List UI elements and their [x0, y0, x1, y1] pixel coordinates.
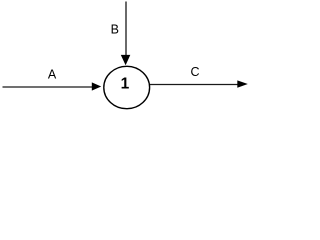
arrowhead of arrow A — [92, 82, 101, 90]
arrowhead of arrow C — [237, 80, 248, 87]
wire: arrow C shaft (right horizontal line) — [150, 84, 238, 86]
wire: arrow A shaft (left horizontal line) — [3, 86, 93, 88]
svg-text:A: A — [48, 68, 57, 82]
wire: arrow B shaft (top vertical line) — [125, 2, 127, 57]
process node 1 (circle) — [104, 66, 150, 108]
svg-text:C: C — [190, 65, 199, 79]
svg-text:1: 1 — [121, 76, 130, 93]
svg-text:B: B — [111, 23, 119, 37]
arrowhead of arrow B — [121, 55, 131, 65]
